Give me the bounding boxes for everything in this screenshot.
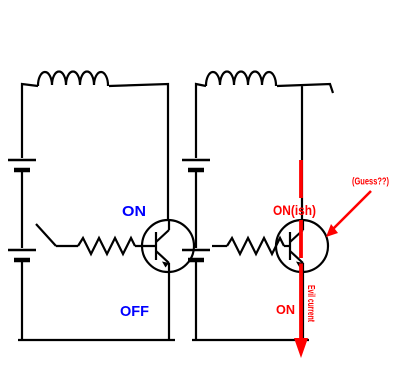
- evil current arrow segment lower: [299, 264, 303, 340]
- resistor R4 base: [227, 238, 284, 254]
- wire bottom rail right: [192, 339, 309, 341]
- guess arrow line: [331, 191, 371, 231]
- wire battery B2 plus to top rail: [196, 84, 206, 158]
- svg-text:ON(ish): ON(ish): [273, 202, 316, 218]
- wire Q1 base: [135, 245, 156, 247]
- wire Q2 base floating: [284, 245, 290, 247]
- evil current arrow segment middle: [299, 220, 303, 258]
- emitter arrow Q1: [162, 262, 169, 268]
- wire R4 floating end: [212, 245, 227, 247]
- wire battery B2 internal: [195, 172, 197, 248]
- resistor R1 load coil: [38, 72, 108, 87]
- wire R2 to switch: [56, 245, 78, 247]
- svg-text:ON: ON: [122, 203, 146, 220]
- resistor R3 load coil: [206, 72, 276, 87]
- svg-text:Evil current: Evil current: [305, 285, 316, 322]
- evil current arrow segment upper: [299, 160, 303, 198]
- emitter arrow Q2: [296, 262, 303, 268]
- evil current arrowhead: [294, 338, 308, 358]
- wire battery B1 plus to top rail: [22, 84, 38, 158]
- resistor R2 base: [78, 238, 135, 254]
- wire R3 to collector corner: [277, 84, 333, 220]
- wire battery B1 minus down: [21, 262, 23, 341]
- wire Q2 emitter down: [302, 263, 304, 340]
- wire Q1 emitter down: [168, 263, 170, 340]
- wire battery B2 minus down: [195, 262, 197, 341]
- transistor Q1: [142, 220, 194, 272]
- wire R1 to collector corner: [109, 84, 168, 220]
- wire battery B1 internal: [21, 172, 23, 248]
- battery B1: [8, 160, 36, 260]
- svg-text:ON: ON: [276, 302, 295, 317]
- transistor Q2: [276, 220, 328, 272]
- svg-text:(Guess??): (Guess??): [352, 177, 389, 188]
- svg-text:OFF: OFF: [120, 303, 149, 320]
- switch SW1 arm: [36, 224, 56, 246]
- guess arrowhead: [326, 224, 338, 237]
- battery B2: [182, 160, 210, 260]
- wire bottom rail left: [18, 339, 175, 341]
